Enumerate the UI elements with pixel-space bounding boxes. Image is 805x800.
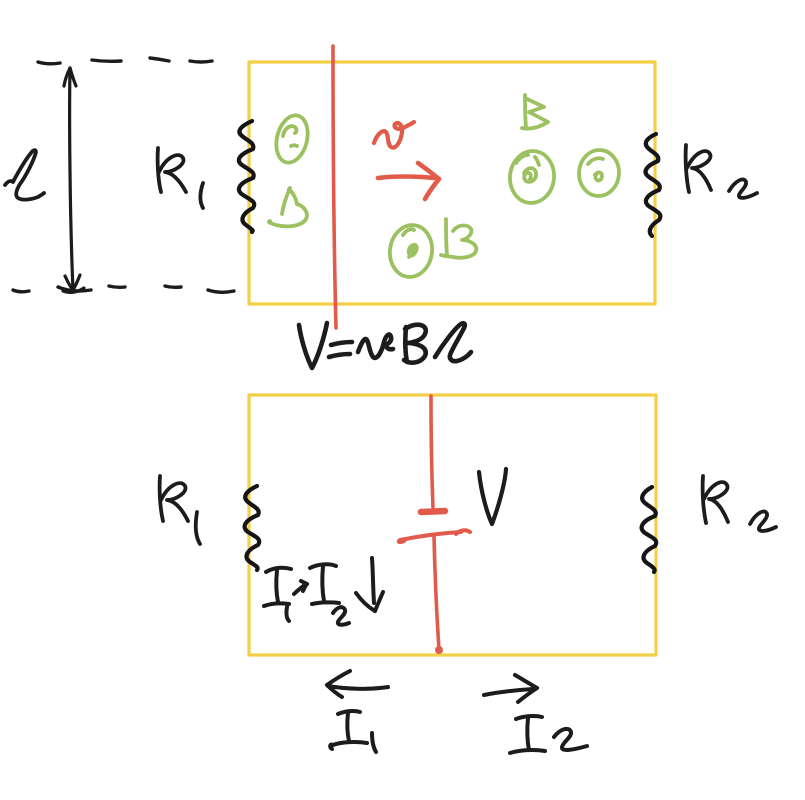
velocity arrow (red) (378, 163, 439, 199)
label l (length, script ell) (5, 150, 44, 199)
junction dot (red) (435, 646, 443, 654)
battery V top lead (red) (431, 396, 433, 507)
label R2 (top) (686, 145, 757, 198)
label I1 (below loop) (330, 711, 376, 752)
battery bottom lead (red) (434, 536, 439, 649)
label B (green, right flag) (522, 95, 548, 129)
current arrow down (inside loop) (356, 558, 383, 611)
formula V = vBl (299, 323, 471, 368)
label R1 (bottom) (160, 476, 200, 544)
wire: top loop rail (yellow rectangle) (249, 62, 655, 304)
length double arrow (63, 68, 84, 292)
battery long plate (red) (399, 530, 470, 542)
label I1 + I2 (inside loop) (264, 564, 349, 624)
field symbol B-dot 3 (507, 149, 556, 205)
label I2 (below loop) (510, 716, 587, 753)
resistor R2 squiggle (top) (646, 134, 661, 236)
label R1 (top) (158, 148, 203, 208)
current arrow I2 (right, below loop) (484, 675, 537, 702)
velocity label v (red) (374, 122, 414, 148)
label V (battery) (479, 469, 506, 524)
current arrow I1 (left, below loop) (327, 671, 388, 697)
field symbol B-dot 2 (387, 222, 436, 279)
battery short plate (red) (421, 511, 445, 512)
resistor R1 squiggle (bottom) (245, 486, 260, 570)
dashed extent line top (38, 58, 212, 64)
dashed extent line bottom (13, 286, 234, 292)
resistor R1 squiggle (top) (239, 121, 254, 232)
field symbol B-dot 1 (272, 112, 313, 166)
label B (green, center) (441, 219, 476, 258)
label B (green, left) (269, 188, 307, 226)
wire: bottom loop rail (yellow rectangle) (249, 395, 656, 655)
conducting rod (red) (333, 46, 336, 328)
field symbol B-dot 4 (577, 149, 620, 198)
label R2 (bottom) (703, 476, 776, 531)
resistor R2 squiggle (bottom) (642, 487, 657, 572)
